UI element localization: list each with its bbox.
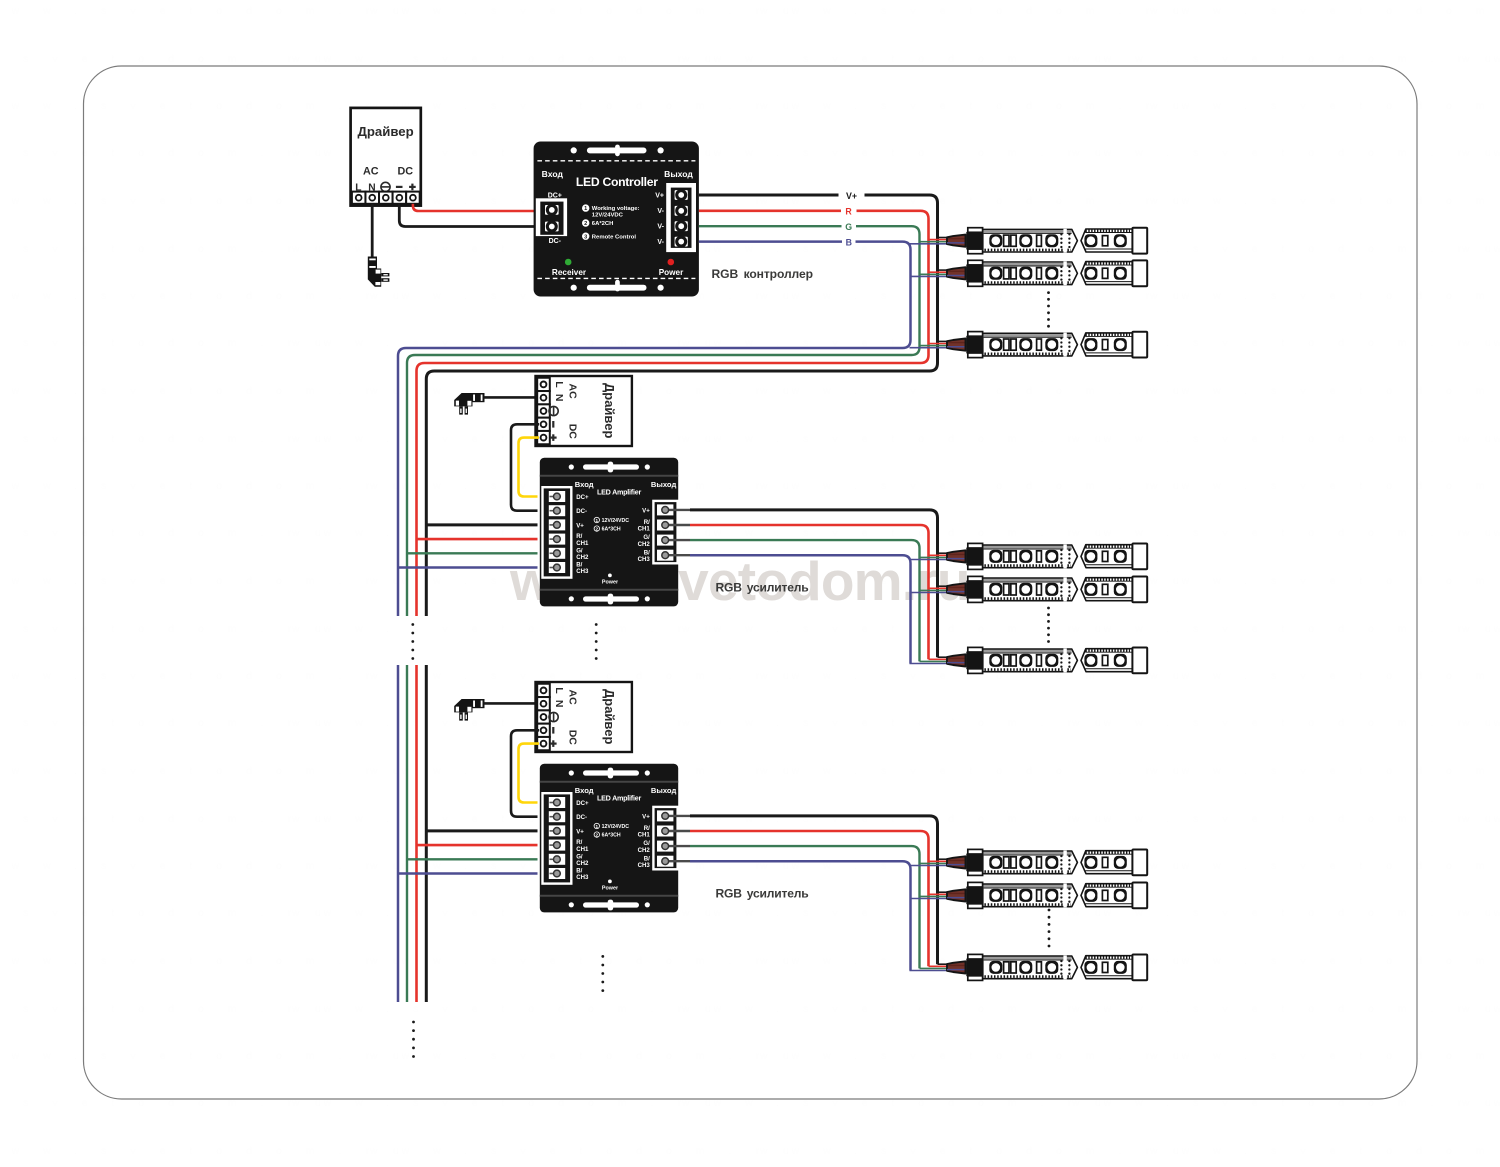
svg-text:www.svetodom.ru: www.svetodom.ru <box>369 5 813 17</box>
RGB amplifier section 2: driver PS3 + plug P3 + LED Amplifier U3 <box>454 682 690 912</box>
svg-text:B: B <box>846 237 852 247</box>
svg-text:6A*2CH: 6A*2CH <box>592 221 614 227</box>
svg-text:www.svetodom.ru: www.svetodom.ru <box>681 433 1125 445</box>
svg-text:www.svetodom.ru: www.svetodom.ru <box>1461 1097 1500 1109</box>
wire branch R red to amplifier U2 input R/CH1 <box>417 538 538 541</box>
svg-text:www.svetodom.ru: www.svetodom.ru <box>1149 480 1500 492</box>
svg-text:www.svetodom.ru: www.svetodom.ru <box>759 385 1203 397</box>
wire G green: amplifier U3 to strips group3 <box>690 846 920 968</box>
svg-text:www.svetodom.ru: www.svetodom.ru <box>1461 337 1500 349</box>
svg-text:www.svetodom.ru: www.svetodom.ru <box>0 1050 423 1062</box>
svg-text:www.svetodom.ru: www.svetodom.ru <box>1071 717 1500 729</box>
LED strip S3 <box>947 332 1147 358</box>
svg-text:LED Controller: LED Controller <box>576 175 658 189</box>
LED strip S6 <box>947 647 1147 673</box>
svg-text:www.svetodom.ru: www.svetodom.ru <box>681 1003 1125 1015</box>
svg-text:Вход: Вход <box>542 169 564 179</box>
wire B blue: amplifier U2 to strips group2 <box>690 555 911 663</box>
svg-text:www.svetodom.ru: www.svetodom.ru <box>1461 717 1500 729</box>
svg-text:V-: V- <box>657 208 664 215</box>
svg-text:www.svetodom.ru: www.svetodom.ru <box>291 433 735 445</box>
svg-text:Power: Power <box>659 268 684 277</box>
wire G green bus lower segment <box>406 665 408 1002</box>
svg-text:www.svetodom.ru: www.svetodom.ru <box>759 5 1203 17</box>
svg-text:www.svetodom.ru: www.svetodom.ru <box>369 670 813 682</box>
svg-text:www.svetodom.ru: www.svetodom.ru <box>0 670 423 682</box>
svg-text:www.svetodom.ru: www.svetodom.ru <box>1149 670 1500 682</box>
svg-text:Выход: Выход <box>664 169 693 179</box>
connector wire bundle for LED strip S7 <box>910 859 954 865</box>
svg-text:DC-: DC- <box>549 238 562 245</box>
svg-text:www.svetodom.ru: www.svetodom.ru <box>759 1145 1203 1157</box>
svg-text:www.svetodom.ru: www.svetodom.ru <box>369 955 813 967</box>
svg-text:1: 1 <box>584 206 587 212</box>
wire branch V+ black to amplifier U3 input <box>426 829 537 832</box>
RGB amplifier section 1: driver PS2 + plug P2 + LED Amplifier U2 <box>454 376 690 606</box>
svg-text:www.svetodom.ru: www.svetodom.ru <box>0 575 423 587</box>
wire branch V+ black to amplifier U2 input <box>426 523 537 526</box>
svg-text:www.svetodom.ru: www.svetodom.ru <box>681 717 1125 729</box>
connector wire bundle for LED strip S3 <box>910 341 954 347</box>
LED strip S7 <box>947 849 1147 875</box>
power plug P1 (vertical) <box>368 257 390 287</box>
wire branch G green to amplifier U3 input G/CH2 <box>407 858 538 860</box>
svg-text:www.svetodom.ru: www.svetodom.ru <box>1071 527 1500 539</box>
svg-text:www.svetodom.ru: www.svetodom.ru <box>291 53 735 65</box>
svg-text:www.svetodom.ru: www.svetodom.ru <box>0 480 423 492</box>
svg-text:RGBконтроллер: RGBконтроллер <box>712 267 813 281</box>
svg-text:V-: V- <box>657 224 664 231</box>
svg-text:www.svetodom.ru: www.svetodom.ru <box>1149 100 1500 112</box>
connector wire bundle for LED strip S2 <box>910 270 954 276</box>
wire V+ black bus lower segment <box>425 665 428 1002</box>
wire B blue: controller to strips group1 and bus <box>398 242 911 616</box>
driver PS1 (Драйвер) box <box>351 108 421 206</box>
svg-text:Receiver: Receiver <box>552 268 587 277</box>
svg-text:www.svetodom.ru: www.svetodom.ru <box>1461 623 1500 635</box>
svg-text:www.svetodom.ru: www.svetodom.ru <box>0 955 423 967</box>
svg-text:R: R <box>845 207 852 217</box>
wire B blue bus lower segment <box>397 665 400 1002</box>
svg-text:www.svetodom.ru: www.svetodom.ru <box>681 623 1125 635</box>
continuation dots strips group3 <box>1048 909 1051 948</box>
svg-text:www.svetodom.ru: www.svetodom.ru <box>1149 5 1500 17</box>
svg-text:V+: V+ <box>846 191 857 201</box>
LED Controller U1 <box>534 142 699 297</box>
svg-text:www.svetodom.ru: www.svetodom.ru <box>1461 527 1500 539</box>
svg-text:www.svetodom.ru: www.svetodom.ru <box>291 1003 735 1015</box>
continuation dots bus below section 2 <box>412 1021 415 1058</box>
svg-text:www.svetodom.ru: www.svetodom.ru <box>1461 53 1500 65</box>
svg-text:Драйвер: Драйвер <box>357 124 413 139</box>
svg-text:www.svetodom.ru: www.svetodom.ru <box>759 290 1203 302</box>
wire R red: amplifier U3 to strips group3 <box>690 831 929 966</box>
svg-text:www.svetodom.ru: www.svetodom.ru <box>1461 147 1500 159</box>
wire V+ black: amplifier U3 to strips group3 <box>690 816 938 964</box>
wire branch R red to amplifier U3 input R/CH1 <box>417 844 538 847</box>
wire branch B blue to amplifier U2 input B/CH3 <box>398 566 538 569</box>
svg-text:3: 3 <box>584 234 587 240</box>
svg-text:Working voltage:: Working voltage: <box>592 206 640 212</box>
svg-text:www.svetodom.ru: www.svetodom.ru <box>1071 1003 1500 1015</box>
svg-text:www.svetodom.ru: www.svetodom.ru <box>681 53 1125 65</box>
svg-text:www.svetodom.ru: www.svetodom.ru <box>369 1145 813 1157</box>
wire G green: amplifier U2 to strips group2 <box>690 540 920 661</box>
wire branch B blue to amplifier U3 input B/CH3 <box>398 872 538 875</box>
svg-text:www.svetodom.ru: www.svetodom.ru <box>291 717 735 729</box>
svg-text:www.svetodom.ru: www.svetodom.ru <box>0 860 423 872</box>
LED strip S5 <box>947 576 1147 602</box>
connector wire bundle for LED strip S6 <box>910 657 954 663</box>
svg-text:www.svetodom.ru: www.svetodom.ru <box>0 290 423 302</box>
svg-text:www.svetodom.ru: www.svetodom.ru <box>759 195 1203 207</box>
svg-text:12V/24VDC: 12V/24VDC <box>592 213 624 219</box>
continuation dots strips group1 <box>1047 291 1050 327</box>
wire R red: controller to strips group1 and bus <box>417 211 929 616</box>
LED strip S2 <box>947 260 1147 286</box>
svg-text:www.svetodom.ru: www.svetodom.ru <box>759 100 1203 112</box>
svg-text:www.svetodom.ru: www.svetodom.ru <box>0 5 423 17</box>
svg-text:www.svetodom.ru: www.svetodom.ru <box>1149 575 1500 587</box>
wire B blue: amplifier U3 to strips group3 <box>690 861 911 970</box>
LED strip S1 <box>947 228 1147 254</box>
svg-text:DC: DC <box>397 166 413 178</box>
svg-text:www.svetodom.ru: www.svetodom.ru <box>681 147 1125 159</box>
svg-text:V-: V- <box>657 239 664 246</box>
wire V+ black: amplifier U2 to strips group2 <box>690 510 938 657</box>
svg-text:V+: V+ <box>655 192 664 199</box>
svg-text:www.svetodom.ru: www.svetodom.ru <box>1461 907 1500 919</box>
LED strip S4 <box>947 543 1147 569</box>
connector wire bundle for LED strip S4 <box>910 553 954 559</box>
svg-text:www.svetodom.ru: www.svetodom.ru <box>1149 290 1500 302</box>
connector wire bundle for LED strip S1 <box>910 238 954 244</box>
continuation dots below amplifier U2 <box>595 623 598 660</box>
svg-text:DC+: DC+ <box>548 192 562 199</box>
svg-text:www.svetodom.ru: www.svetodom.ru <box>291 623 735 635</box>
svg-text:www.svetodom.ru: www.svetodom.ru <box>1071 53 1500 65</box>
svg-text:www.svetodom.ru: www.svetodom.ru <box>1149 1050 1500 1062</box>
wire R red bus lower segment <box>415 665 418 1002</box>
svg-text:www.svetodom.ru: www.svetodom.ru <box>369 1050 813 1062</box>
svg-text:www.svetodom.ru: www.svetodom.ru <box>1461 243 1500 255</box>
svg-text:2: 2 <box>584 221 587 227</box>
svg-text:www.svetodom.ru: www.svetodom.ru <box>759 480 1203 492</box>
svg-text:www.svetodom.ru: www.svetodom.ru <box>0 765 423 777</box>
svg-text:www.svetodom.ru: www.svetodom.ru <box>1461 813 1500 825</box>
svg-text:www.svetodom.ru: www.svetodom.ru <box>681 527 1125 539</box>
svg-text:www.svetodom.ru: www.svetodom.ru <box>369 100 813 112</box>
svg-text:RGBусилитель: RGBусилитель <box>716 887 809 901</box>
svg-text:Remote Control: Remote Control <box>592 234 637 240</box>
wire V+ black: controller to strips group1 and bus <box>426 195 937 616</box>
wire red driver PS1 + to controller DC+ <box>413 204 537 211</box>
outer rounded border frame <box>84 66 1418 1099</box>
wire R red: amplifier U2 to strips group2 <box>690 525 929 659</box>
wire G green: controller to strips group1 and bus <box>407 226 920 616</box>
connector wire bundle for LED strip S9 <box>910 964 954 970</box>
svg-text:www.svetodom.ru: www.svetodom.ru <box>759 765 1203 777</box>
svg-text:www.svetodom.ru: www.svetodom.ru <box>1149 765 1500 777</box>
svg-text:AC: AC <box>363 166 379 178</box>
svg-text:www.svetodom.ru: www.svetodom.ru <box>759 1050 1203 1062</box>
continuation dots below amplifier U3 <box>601 955 604 992</box>
svg-text:www.svetodom.ru: www.svetodom.ru <box>1071 147 1500 159</box>
AC cord driver PS1 to plug P1 <box>371 204 374 257</box>
continuation dots strips group2 <box>1047 607 1050 643</box>
svg-text:www.svetodom.ru: www.svetodom.ru <box>1149 195 1500 207</box>
svg-text:www.svetodom.ru: www.svetodom.ru <box>1149 955 1500 967</box>
svg-text:G: G <box>845 222 852 232</box>
svg-text:www.svetodom.ru: www.svetodom.ru <box>1071 623 1500 635</box>
continuation dots bus below section 1 <box>411 623 414 660</box>
svg-text:www.svetodom.ru: www.svetodom.ru <box>1149 1145 1500 1157</box>
svg-text:www.svetodom.ru: www.svetodom.ru <box>1071 433 1500 445</box>
svg-text:RGBусилитель: RGBусилитель <box>716 581 809 595</box>
svg-text:www.svetodom.ru: www.svetodom.ru <box>1071 813 1500 825</box>
svg-text:www.svetodom.ru: www.svetodom.ru <box>1149 385 1500 397</box>
svg-text:www.svetodom.ru: www.svetodom.ru <box>0 385 423 397</box>
wire black driver PS1 - to controller DC- <box>399 204 536 227</box>
svg-text:www.svetodom.ru: www.svetodom.ru <box>1461 1003 1500 1015</box>
svg-text:www.svetodom.ru: www.svetodom.ru <box>1461 433 1500 445</box>
LED strip S8 <box>947 882 1147 908</box>
LED strip S9 <box>947 954 1147 980</box>
svg-text:www.svetodom.ru: www.svetodom.ru <box>681 907 1125 919</box>
connector wire bundle for LED strip S5 <box>910 586 954 592</box>
svg-text:www.svetodom.ru: www.svetodom.ru <box>1149 860 1500 872</box>
svg-text:www.svetodom.ru: www.svetodom.ru <box>0 1145 423 1157</box>
connector wire bundle for LED strip S8 <box>910 892 954 898</box>
wire branch G green to amplifier U2 input G/CH2 <box>407 552 538 554</box>
